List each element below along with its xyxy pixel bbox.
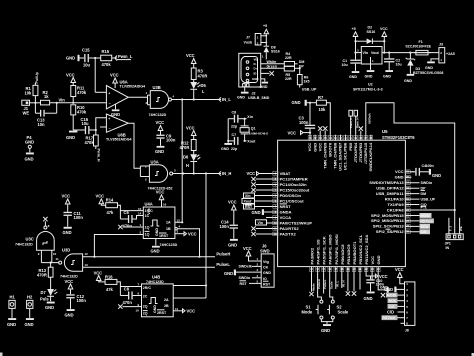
node RSTlcd flag — [420, 218, 435, 223]
svg-text:D5: D5 — [201, 83, 207, 88]
ground GND (pin 24) — [378, 272, 389, 295]
connector J1 WE — [22, 100, 30, 115]
node C/S flag (J8 pin5) — [388, 304, 405, 309]
svg-text:100n: 100n — [299, 120, 309, 125]
wire (PA7 stub) with rotated net — [335, 272, 339, 289]
node Pwm_H flag (rotated) — [96, 146, 101, 162]
svg-text:14: 14 — [138, 212, 142, 216]
svg-text:100n: 100n — [426, 164, 434, 168]
switch S1 Mode — [302, 300, 323, 319]
svg-text:PA4/SPI1_SS: PA4/SPI1_SS — [316, 239, 321, 264]
no-connect X (U3C out) — [43, 217, 47, 221]
node IN_H flag — [219, 171, 232, 176]
node junction (1B loop on PulseH) — [93, 256, 95, 258]
svg-text:USB_UP: USB_UP — [302, 88, 317, 92]
svg-text:100n: 100n — [166, 138, 176, 143]
svg-text:Vusb: Vusb — [244, 41, 253, 45]
svg-text:GND: GND — [155, 228, 159, 236]
wire — [356, 40, 367, 42]
node Pwm_H stub flag (rotated) — [354, 110, 359, 134]
node Xin flag — [244, 193, 273, 198]
power flag VCC (J8 pin1) — [395, 267, 405, 284]
svg-text:11: 11 — [175, 307, 178, 311]
resistor R16 47k — [105, 274, 117, 292]
svg-text:IO: IO — [263, 277, 267, 281]
node junction (C3 top) — [309, 102, 311, 104]
svg-text:10u: 10u — [83, 63, 91, 68]
wire (pin 23 stub) — [371, 272, 373, 280]
svg-text:GND: GND — [395, 175, 404, 180]
node DM flag — [421, 192, 427, 196]
svg-text:GND: GND — [153, 305, 157, 313]
svg-text:470R: 470R — [180, 145, 190, 150]
connector J2 USB-B_SMD — [239, 53, 264, 87]
node VCC flag (2RST) — [173, 307, 195, 314]
node USB_UP flag — [300, 85, 317, 92]
svg-text:VCC: VCC — [228, 200, 237, 205]
svg-text:GND: GND — [260, 85, 268, 89]
node PullUp label (rotated) — [35, 71, 39, 85]
svg-text:DM: DM — [421, 192, 427, 196]
svg-text:SWD: SWD — [260, 248, 270, 253]
svg-text:1k: 1k — [44, 94, 49, 99]
U5 bottom pin stubs and numbers — [312, 267, 379, 273]
svg-text:+: + — [108, 91, 110, 95]
power flag VCC (R14) — [96, 194, 106, 206]
no-connect X (PA3) — [309, 272, 313, 296]
gate U3C 74HC132D (vertical) — [15, 221, 54, 250]
resistor R13 470R — [37, 267, 53, 277]
wire (Xin rail) — [228, 118, 234, 120]
fuse F1 0ZCJ0010FF2E — [406, 40, 432, 55]
power flag VCC (R16) — [94, 270, 106, 282]
svg-text:10k: 10k — [319, 107, 327, 112]
capacitor C16 10u — [81, 117, 90, 134]
svg-text:TX1/PA9: TX1/PA9 — [387, 202, 404, 207]
svg-text:SPX1117M3-L-3-3: SPX1117M3-L-3-3 — [353, 88, 383, 92]
svg-text:13: 13 — [177, 218, 181, 222]
svg-text:VCC: VCC — [288, 130, 297, 135]
svg-text:SPI2_MOSI/PB15: SPI2_MOSI/PB15 — [371, 213, 404, 218]
svg-text:GND: GND — [228, 242, 237, 247]
svg-text:GND: GND — [383, 75, 391, 79]
svg-text:U3A: U3A — [151, 160, 159, 165]
capacitor C10 100n (PB11/VCC pin) — [364, 272, 388, 301]
svg-text:C8: C8 — [124, 287, 130, 292]
svg-text:−: − — [109, 102, 111, 106]
no-connect X (PC15) — [251, 188, 255, 192]
svg-text:D6: D6 — [183, 155, 189, 160]
wire — [72, 97, 74, 103]
resistor R10 470k — [71, 105, 87, 115]
svg-text:+5: +5 — [263, 24, 267, 28]
resistor R12 470R — [180, 140, 197, 151]
svg-text:CK: CK — [263, 266, 269, 270]
svg-text:PC1/OSCout: PC1/OSCout — [280, 198, 305, 203]
svg-text:22R: 22R — [285, 77, 292, 81]
svg-text:74HC123D: 74HC123D — [146, 280, 164, 284]
ground GND (crystal caps) — [221, 143, 232, 151]
svg-text:GND: GND — [425, 66, 433, 70]
svg-text:USB_UP: USB_UP — [421, 198, 436, 202]
ic U4B 74HC123D — [142, 274, 174, 317]
wire (Xout rail) — [228, 140, 234, 142]
pin 3 GND bar — [224, 268, 261, 276]
switch S2 Scale — [327, 300, 349, 319]
svg-text:GND: GND — [7, 322, 16, 327]
wire — [256, 178, 273, 180]
svg-text:GND: GND — [252, 210, 261, 215]
svg-text:+: + — [108, 117, 110, 121]
svg-text:VCC: VCC — [186, 53, 195, 58]
svg-text:U3C: U3C — [26, 237, 34, 242]
ground flag GND (C15 left) — [66, 55, 80, 61]
svg-text:11: 11 — [56, 257, 59, 261]
svg-text:GND: GND — [321, 328, 330, 333]
wire — [256, 184, 273, 186]
svg-text:GND: GND — [432, 173, 441, 178]
svg-text:PC15/Osc32out: PC15/Osc32out — [280, 187, 310, 192]
node junction (+5 / D2) — [354, 40, 356, 42]
wire (IN_L down to U4A) — [181, 100, 183, 223]
svg-text:CK1/PA8: CK1/PA8 — [387, 207, 405, 212]
svg-text:VBAT: VBAT — [280, 171, 291, 176]
svg-text:SPI2_SS/PB12: SPI2_SS/PB12 — [376, 229, 404, 234]
svg-text:RX1/PA10: RX1/PA10 — [385, 196, 405, 201]
svg-text:MOSI: MOSI — [421, 214, 430, 218]
svg-text:470k: 470k — [77, 110, 87, 115]
power flag +5 (J7) — [263, 24, 269, 46]
svg-text:10n: 10n — [38, 122, 46, 127]
wire (JP1 pin WE side) — [459, 218, 463, 234]
node VCC flag (1RST) — [175, 230, 197, 237]
node C/D flag (J8 pin6) — [387, 310, 405, 315]
diode D3 BZT55C3V6-GS08 (zener) — [404, 52, 443, 84]
svg-text:VCCA: VCCA — [280, 215, 292, 220]
svg-text:PA5/SPI1_SCK: PA5/SPI1_SCK — [322, 236, 327, 264]
ground GND (switches) — [321, 324, 331, 333]
svg-text:TLV3502AIDG4: TLV3502AIDG4 — [106, 138, 132, 142]
node MOSI flag with X (J8 pin3) — [381, 293, 405, 298]
node DP flag — [295, 64, 305, 69]
wire — [72, 115, 74, 130]
svg-text:16: 16 — [163, 203, 167, 207]
svg-text:PC13/TAMPER: PC13/TAMPER — [280, 176, 308, 181]
power flag VCC (R11) — [66, 73, 76, 86]
svg-text:IN_H: IN_H — [222, 171, 231, 176]
svg-text:VCC: VCC — [186, 126, 195, 131]
node junction (Vout/VCC) — [383, 52, 385, 54]
U5 left pin number boxes — [273, 172, 278, 236]
capacitor C14 100n with VCC/GND — [220, 200, 239, 248]
node junction (D6) — [193, 172, 195, 174]
svg-text:C15: C15 — [82, 48, 90, 53]
svg-text:USB_DP/PA12: USB_DP/PA12 — [376, 186, 404, 191]
svg-text:IN_H: IN_H — [341, 280, 345, 287]
svg-text:10u: 10u — [396, 63, 402, 67]
svg-text:SWDio: SWDio — [239, 276, 251, 280]
svg-text:GND: GND — [376, 255, 381, 264]
svg-text:Xin: Xin — [245, 194, 251, 198]
svg-text:GND: GND — [384, 287, 393, 292]
wire D+ — [261, 67, 285, 69]
svg-text:U4B: U4B — [152, 274, 160, 279]
svg-text:U3D: U3D — [62, 248, 70, 253]
no-connect X (PB1) — [346, 272, 350, 296]
node junction — [227, 140, 229, 142]
wire (IN_H down to U4B) — [205, 174, 207, 299]
op-amp U6B TLV3502AIDG4 — [106, 114, 132, 142]
node Xout flag — [245, 139, 256, 143]
svg-text:C/D: C/D — [387, 310, 394, 315]
svg-text:Mode: Mode — [302, 309, 313, 314]
svg-text:Pwm_L: Pwm_L — [349, 118, 353, 128]
svg-text:PulseL: PulseL — [323, 279, 327, 289]
svg-text:PB2/BOOT1: PB2/BOOT1 — [352, 241, 357, 265]
svg-text:Xin: Xin — [247, 115, 253, 119]
svg-text:Xout: Xout — [244, 200, 253, 204]
svg-text:F1: F1 — [419, 40, 423, 44]
svg-text:8.00M-HC49-S: 8.00M-HC49-S — [249, 132, 268, 136]
svg-text:R16: R16 — [105, 274, 113, 279]
U5 top pin number boxes — [308, 135, 373, 140]
svg-text:Q1: Q1 — [251, 127, 256, 131]
U5 right pin number boxes — [405, 170, 410, 234]
svg-text:VCC: VCC — [188, 231, 197, 236]
svg-text:47k: 47k — [106, 287, 114, 292]
wire (J8 pin8 stub) — [401, 322, 405, 324]
svg-text:VIn: VIn — [363, 51, 369, 55]
svg-text:GND: GND — [63, 230, 72, 235]
gate U3D 74HC132D (mirrored) — [59, 248, 83, 279]
node Pwm_L flag — [115, 54, 133, 61]
resistor R15 470k — [101, 49, 112, 67]
svg-text:U2: U2 — [368, 83, 373, 87]
resistor R11 470k — [71, 86, 87, 97]
connector J3 +2A5 — [439, 43, 455, 63]
svg-text:MOSI: MOSI — [387, 294, 396, 298]
svg-text:470k: 470k — [85, 140, 95, 145]
led D5 — [190, 80, 206, 100]
svg-text:470R: 470R — [198, 74, 208, 79]
wire — [256, 189, 273, 191]
svg-text:100n: 100n — [74, 215, 84, 220]
svg-text:2Q: 2Q — [143, 312, 148, 316]
svg-text:SWDIO/TMS/PA13: SWDIO/TMS/PA13 — [369, 180, 404, 185]
svg-text:GND: GND — [263, 271, 271, 275]
capacitor C8 470n — [123, 287, 142, 306]
resistor R1 10k — [25, 85, 38, 95]
svg-text:GND: GND — [45, 305, 54, 310]
power flag VCC (U4A pin16) — [156, 190, 167, 207]
node RST flag — [244, 204, 273, 209]
no-connect X (1A) — [118, 225, 143, 229]
node MOSI flag — [420, 213, 432, 218]
svg-text:15: 15 — [138, 207, 142, 211]
pin 4 SWDio flag — [239, 274, 262, 280]
diode D8 SS16 — [264, 46, 280, 60]
svg-text:12: 12 — [85, 252, 89, 256]
svg-text:10u: 10u — [82, 121, 90, 126]
resistor R6 1k5 — [297, 68, 309, 84]
svg-text:2R/C: 2R/C — [143, 286, 152, 290]
resistor R3 470R — [191, 68, 207, 80]
svg-text:1B: 1B — [166, 227, 171, 231]
svg-text:GND: GND — [155, 149, 164, 154]
svg-text:VB: VB — [254, 58, 258, 62]
svg-text:VCC: VCC — [370, 256, 375, 265]
node C/D flag — [421, 203, 428, 207]
node SCK flag — [420, 224, 431, 229]
svg-text:SWDCLK/PA14: SWDCLK/PA14 — [368, 142, 373, 171]
svg-text:74HC132D: 74HC132D — [15, 242, 33, 246]
svg-text:470n: 470n — [123, 224, 133, 229]
no-connect X (pin stub) — [323, 126, 327, 134]
U5 right pin labels — [369, 169, 404, 234]
svg-text:SCK: SCK — [421, 225, 429, 229]
resistor R2 1k — [41, 90, 50, 105]
svg-text:2A: 2A — [164, 298, 169, 302]
svg-text:0ZCJ0010FF2E: 0ZCJ0010FF2E — [406, 45, 432, 49]
svg-text:Scale: Scale — [329, 281, 333, 289]
node junction (drop to U4B) — [205, 172, 207, 174]
wire (2Q to IN_H drop bottom) — [173, 297, 206, 299]
svg-text:J7: J7 — [246, 36, 250, 40]
capacitor C6 470n — [123, 210, 144, 229]
svg-text:10k: 10k — [25, 91, 33, 96]
svg-text:74HC132D: 74HC132D — [60, 275, 78, 279]
wire (1Qbar to PulseH) — [175, 225, 201, 258]
no-connect X (PC14) — [251, 182, 255, 186]
power flag VCC (R12) — [186, 126, 196, 140]
power flag VCC (D2 out) — [380, 27, 388, 53]
svg-text:−: − — [109, 126, 111, 130]
hole H2 — [25, 295, 34, 328]
resistor R7 10k — [316, 95, 326, 112]
svg-text:SS16: SS16 — [271, 50, 280, 54]
svg-text:BZT55C3V6-GS08: BZT55C3V6-GS08 — [413, 71, 443, 75]
svg-text:GND: GND — [364, 296, 373, 301]
svg-text:VCC: VCC — [156, 190, 165, 195]
wire (cap common rail) — [227, 119, 229, 143]
U5 left pin labels — [280, 171, 313, 237]
svg-text:F_1: F_1 — [421, 206, 427, 210]
wire — [80, 57, 85, 59]
wire PulseL (U3D in 13) — [83, 266, 215, 268]
svg-text:VCC: VCC — [380, 27, 388, 31]
node C15/R15 junction — [94, 57, 96, 59]
svg-text:470k: 470k — [102, 62, 112, 67]
wire (2Qbar upper to IN_H drop) — [173, 285, 206, 287]
wire (PB0 stub) — [341, 272, 345, 288]
svg-text:J3: J3 — [439, 43, 443, 47]
pin 5 RST flag — [240, 280, 262, 286]
svg-text:GND: GND — [66, 135, 75, 140]
wire (PA5 stub) with rotated net — [323, 272, 327, 293]
svg-text:+2A5: +2A5 — [446, 52, 455, 56]
wire (PA6 to S2) — [330, 272, 333, 300]
svg-text:GND: GND — [349, 75, 357, 79]
svg-text:D-: D- — [254, 62, 257, 66]
capacitor C7 22p — [231, 133, 239, 151]
node SWDio flag — [421, 181, 433, 185]
svg-text:Xout: Xout — [247, 139, 256, 143]
node junction — [181, 221, 183, 223]
svg-text:USB-B_SMD: USB-B_SMD — [248, 96, 270, 100]
svg-text:Vcc: Vcc — [147, 208, 151, 214]
wire (junction up to U6B +) — [96, 118, 107, 130]
svg-text:SCK: SCK — [389, 299, 397, 303]
svg-text:22R: 22R — [285, 56, 292, 60]
capacitor C9 100n with VCC/GND — [155, 120, 176, 154]
power flag VCC (C3 / MCU VCC pin) — [288, 130, 312, 135]
wire (PA4 to S1) with rotated net — [312, 272, 322, 300]
no-connect X (PB2) — [352, 272, 356, 296]
svg-text:PA3/RX2: PA3/RX2 — [310, 247, 315, 264]
svg-text:470R: 470R — [37, 273, 47, 278]
svg-text:PD0/OSCin: PD0/OSCin — [280, 193, 302, 198]
svg-text:RST: RST — [263, 282, 271, 286]
node IN_L flag — [219, 97, 232, 102]
svg-text:1k5: 1k5 — [304, 80, 310, 84]
svg-text:2Q: 2Q — [143, 305, 148, 309]
svg-text:Pwm_L: Pwm_L — [118, 54, 133, 59]
wire (U2 out rail) — [382, 52, 439, 54]
pin 1 stub with VCC — [243, 246, 261, 261]
ground GND (U4A) — [151, 239, 160, 254]
svg-text:VCC: VCC — [395, 267, 404, 272]
node junction (F_1 / JP1) — [454, 209, 456, 211]
svg-text:74HC123D: 74HC123D — [160, 243, 178, 247]
node junction — [205, 284, 207, 286]
ic U5 body — [278, 140, 406, 266]
svg-text:VCC: VCC — [243, 246, 252, 251]
connector J6 SWD — [260, 244, 274, 288]
node Vin flag — [256, 220, 273, 225]
svg-text:PB11/UC2_SDA: PB11/UC2_SDA — [364, 235, 369, 265]
svg-text:RST: RST — [240, 282, 248, 286]
capacitor C1 10u — [342, 52, 361, 80]
no-connect X (2A) — [118, 304, 141, 308]
svg-text:GND: GND — [25, 322, 34, 327]
node J1/R1 junction — [34, 102, 36, 104]
diode D2 SS16 — [367, 26, 385, 45]
node junction (Xout) — [244, 140, 246, 142]
wire (R7 to BOOT0) — [326, 103, 330, 135]
svg-text:RSTlcd: RSTlcd — [420, 219, 432, 223]
U5 top pin labels (rotated) — [307, 142, 373, 171]
crystal Q1 8.00M-HC49-S — [240, 119, 268, 141]
ground GND (J3 pin1) — [425, 59, 439, 70]
ground GND (J8 pin2) — [384, 287, 405, 293]
resistor R14 47k — [106, 198, 118, 216]
svg-text:+5: +5 — [352, 27, 356, 31]
svg-text:STM32F103C8T6: STM32F103C8T6 — [382, 135, 415, 140]
svg-text:SPI2_MISO/PB14: SPI2_MISO/PB14 — [371, 218, 404, 223]
wire (PB10 stub) — [359, 272, 361, 289]
wire Vin rail — [50, 102, 107, 104]
ground GND (U6A) — [111, 104, 120, 117]
wire — [89, 57, 101, 59]
refdes J2 USB-B_SMD — [248, 92, 270, 100]
svg-text:DM: DM — [299, 60, 305, 64]
node junction — [182, 172, 184, 174]
wire D- — [261, 63, 285, 65]
svg-text:GND: GND — [404, 79, 412, 83]
svg-text:10u: 10u — [342, 63, 348, 67]
wire (R16 to 2R/C and C8) — [117, 282, 142, 296]
wire — [239, 118, 245, 120]
